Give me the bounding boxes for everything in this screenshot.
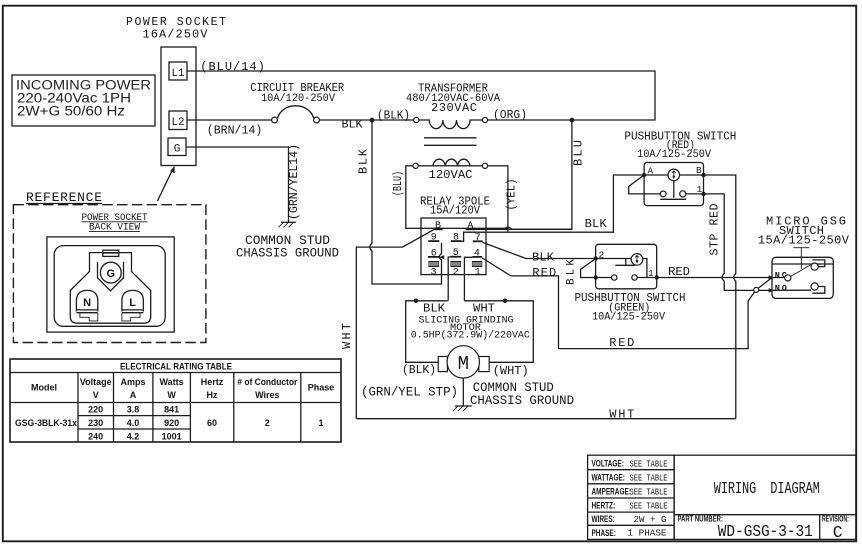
svg-text:10A/125-250V: 10A/125-250V bbox=[592, 312, 665, 324]
node BLU junction bbox=[570, 118, 575, 123]
svg-text:A: A bbox=[647, 166, 653, 177]
svg-text:V: V bbox=[93, 390, 99, 400]
svg-text:Hz: Hz bbox=[207, 390, 218, 400]
svg-text:AMPERAGE:: AMPERAGE: bbox=[592, 486, 631, 497]
svg-text:4.2: 4.2 bbox=[127, 431, 140, 441]
svg-text:SEE TABLE: SEE TABLE bbox=[630, 472, 668, 483]
svg-text:N: N bbox=[83, 297, 91, 309]
svg-text:L2: L2 bbox=[172, 117, 185, 129]
svg-text:RED: RED bbox=[532, 266, 556, 280]
svg-text:220: 220 bbox=[88, 405, 103, 415]
label PUSHBUTTON SWITCH (RED) bbox=[624, 130, 736, 161]
incoming power note box bbox=[12, 75, 155, 126]
svg-text:W: W bbox=[167, 390, 176, 400]
svg-text:WHT: WHT bbox=[473, 301, 495, 315]
svg-text:Amps: Amps bbox=[120, 377, 145, 387]
svg-text:PHASE:: PHASE: bbox=[592, 528, 616, 539]
relay contact block bbox=[421, 218, 486, 275]
svg-text:BLU: BLU bbox=[572, 140, 586, 166]
relay pad 9 bbox=[428, 240, 439, 242]
svg-text:0.5HP(372.9W)/220VAC: 0.5HP(372.9W)/220VAC bbox=[411, 329, 530, 341]
svg-text:CHASSIS GROUND: CHASSIS GROUND bbox=[236, 246, 339, 261]
wire L1 to top right bbox=[187, 71, 655, 120]
svg-text:9: 9 bbox=[431, 233, 437, 244]
svg-text:(WHT): (WHT) bbox=[493, 364, 529, 378]
svg-text:(YEL): (YEL) bbox=[505, 179, 519, 211]
svg-text:920: 920 bbox=[164, 418, 179, 428]
svg-text:3: 3 bbox=[430, 267, 436, 278]
svg-text:5: 5 bbox=[453, 248, 459, 259]
svg-text:Voltage: Voltage bbox=[80, 377, 112, 387]
svg-text:REFERENCE: REFERENCE bbox=[26, 190, 102, 205]
relay contact 4-1 bbox=[472, 261, 482, 266]
svg-text:WATTAGE:: WATTAGE: bbox=[592, 472, 625, 483]
svg-text:2: 2 bbox=[453, 268, 459, 279]
wire PB-red B down (STP RED 1) bbox=[704, 175, 736, 419]
pushbutton switch red S1 bbox=[629, 163, 706, 206]
svg-text:VOLTAGE:: VOLTAGE: bbox=[592, 458, 624, 469]
svg-text:7: 7 bbox=[475, 233, 481, 244]
svg-text:230: 230 bbox=[88, 418, 103, 428]
svg-text:WD-GSG-3-31: WD-GSG-3-31 bbox=[718, 522, 813, 541]
svg-text:WIRES:: WIRES: bbox=[592, 514, 615, 525]
svg-text:60: 60 bbox=[207, 418, 217, 428]
svg-text:STP RED: STP RED bbox=[709, 203, 722, 255]
svg-text:L1: L1 bbox=[172, 68, 185, 80]
svg-text:M: M bbox=[458, 353, 469, 375]
svg-text:BLK: BLK bbox=[342, 118, 364, 132]
power socket J1 bbox=[161, 47, 196, 166]
svg-text:G: G bbox=[107, 268, 116, 280]
svg-text:SEE TABLE: SEE TABLE bbox=[630, 458, 668, 469]
leader arrow to socket bbox=[157, 166, 174, 201]
svg-text:PART NUMBER:: PART NUMBER: bbox=[678, 513, 723, 523]
label REFERENCE bbox=[26, 190, 102, 205]
svg-text:Model: Model bbox=[31, 383, 57, 393]
svg-text:1: 1 bbox=[648, 268, 654, 279]
wire PB-red 1 down to micro NO bbox=[704, 194, 770, 291]
svg-text:L: L bbox=[129, 297, 136, 309]
svg-text:Phase: Phase bbox=[308, 383, 335, 393]
svg-text:8: 8 bbox=[453, 233, 459, 244]
relay pad 5 bbox=[450, 256, 461, 258]
svg-text:240: 240 bbox=[88, 431, 103, 441]
wire relay A line with hop bbox=[475, 227, 572, 229]
svg-text:NO: NO bbox=[775, 283, 787, 293]
label COMMON STUD CHASSIS GROUND (left) bbox=[236, 233, 339, 261]
svg-text:16A/250V: 16A/250V bbox=[143, 28, 209, 42]
svg-text:230VAC: 230VAC bbox=[431, 101, 477, 115]
svg-text:120VAC: 120VAC bbox=[429, 168, 473, 182]
label PUSHBUTTON SWITCH (GREEN) bbox=[575, 291, 686, 324]
transformer T1 bbox=[406, 82, 500, 146]
svg-text:1 PHASE: 1 PHASE bbox=[628, 528, 667, 539]
svg-text:2W + G: 2W + G bbox=[634, 514, 667, 525]
label POWER SOCKET title bbox=[126, 16, 226, 42]
svg-text:HERTZ:: HERTZ: bbox=[592, 500, 616, 511]
svg-text:ELECTRICAL RATING TABLE: ELECTRICAL RATING TABLE bbox=[120, 362, 232, 372]
relay coil box U1 bbox=[406, 159, 508, 228]
svg-text:3.8: 3.8 bbox=[127, 405, 140, 415]
label COMMON STUD CHASSIS GROUND (motor) bbox=[470, 380, 574, 408]
svg-text:10A/120-250V: 10A/120-250V bbox=[261, 93, 335, 105]
svg-text:1001: 1001 bbox=[162, 431, 182, 441]
title block bbox=[588, 455, 856, 542]
relay pad A bbox=[466, 228, 475, 230]
svg-text:841: 841 bbox=[164, 405, 179, 415]
wire motor to ground bbox=[462, 378, 464, 406]
svg-text:6: 6 bbox=[431, 248, 437, 259]
wire relay B to WHT neutral bbox=[356, 230, 433, 419]
ground chassis (motor) bbox=[453, 406, 472, 411]
svg-text:(GRN/YEL STP): (GRN/YEL STP) bbox=[361, 384, 458, 399]
svg-text:WIRING DIAGRAM: WIRING DIAGRAM bbox=[714, 479, 820, 498]
svg-text:A: A bbox=[467, 221, 473, 232]
wire G to chassis ground bbox=[186, 147, 289, 222]
svg-text:15A/125-250V: 15A/125-250V bbox=[758, 234, 850, 248]
electrical rating table bbox=[10, 359, 341, 442]
micro switch common pivot bbox=[754, 287, 759, 292]
svg-text:(BLU): (BLU) bbox=[391, 171, 405, 196]
label POWER SOCKET BACK VIEW bbox=[82, 213, 148, 234]
wire breaker to transformer bbox=[320, 119, 414, 121]
svg-text:2: 2 bbox=[265, 418, 270, 428]
wire BLU vertical to relay coil A bbox=[475, 120, 572, 229]
svg-text:Watts: Watts bbox=[160, 377, 184, 387]
svg-text:Hertz: Hertz bbox=[201, 377, 224, 387]
svg-text:BLK: BLK bbox=[357, 148, 371, 174]
svg-text:RED: RED bbox=[609, 336, 634, 350]
wire relay pad 8 to pushbutton A bbox=[461, 175, 644, 241]
svg-text:A: A bbox=[130, 390, 137, 400]
svg-text:WHT: WHT bbox=[340, 323, 354, 349]
label MICRO GSG SWITCH bbox=[758, 215, 850, 248]
svg-text:G: G bbox=[174, 143, 181, 155]
ground chassis (socket) bbox=[279, 222, 297, 227]
svg-text:GSG-3BLK-31x: GSG-3BLK-31x bbox=[15, 418, 77, 428]
wire WHT bottom run bbox=[356, 418, 736, 420]
relay contact 6-3 bbox=[429, 261, 439, 266]
svg-text:C: C bbox=[833, 523, 843, 542]
svg-text:4: 4 bbox=[474, 248, 480, 259]
svg-text:Wires: Wires bbox=[255, 390, 279, 400]
wire relay 4col to motor WHT bbox=[464, 257, 472, 300]
svg-text:15A/120V: 15A/120V bbox=[430, 204, 481, 218]
svg-text:(BLU/14): (BLU/14) bbox=[200, 60, 264, 74]
relay pad B bbox=[433, 228, 442, 230]
wire lever NC to pivot bbox=[758, 278, 771, 288]
relay pad 4 bbox=[472, 256, 482, 258]
svg-text:# of Conductor: # of Conductor bbox=[237, 377, 297, 387]
wire coil box right edge stub bbox=[507, 228, 509, 232]
wire relay 7 to green PB (BLK) bbox=[483, 242, 596, 258]
svg-text:(BRN/14): (BRN/14) bbox=[207, 124, 262, 138]
svg-text:(GRN/YEL14): (GRN/YEL14) bbox=[287, 144, 301, 220]
svg-text:10A/125-250V: 10A/125-250V bbox=[637, 149, 711, 161]
svg-text:BLK: BLK bbox=[423, 301, 446, 315]
wire relay 5 to motor BLK bbox=[448, 257, 450, 301]
relay pad 7 bbox=[473, 240, 483, 242]
svg-text:1: 1 bbox=[318, 418, 323, 428]
wire relay 4 RED run to micro common bbox=[482, 258, 754, 349]
circuit breaker CB1 bbox=[250, 81, 344, 123]
motor M1 box bbox=[406, 299, 534, 379]
svg-text:4.0: 4.0 bbox=[127, 418, 140, 428]
svg-text:BLK: BLK bbox=[585, 217, 608, 231]
svg-text:WHT: WHT bbox=[609, 408, 634, 422]
svg-text:2W+G 50/60 Hz: 2W+G 50/60 Hz bbox=[17, 104, 125, 119]
node BLK junction bbox=[370, 118, 375, 123]
wire L2 to breaker bbox=[187, 119, 272, 121]
svg-text:(BLK): (BLK) bbox=[377, 109, 410, 123]
svg-text:SEE TABLE: SEE TABLE bbox=[630, 486, 668, 497]
svg-text:(ORG): (ORG) bbox=[493, 108, 527, 122]
svg-text:BLK: BLK bbox=[532, 251, 555, 265]
micro GSG switch S3 bbox=[769, 248, 834, 299]
svg-text:BLK: BLK bbox=[566, 259, 578, 285]
svg-text:CHASSIS GROUND: CHASSIS GROUND bbox=[470, 393, 574, 408]
wire BLK vertical from breaker junction bbox=[370, 120, 442, 284]
relay pad 6 bbox=[428, 256, 439, 258]
svg-text:(BLK): (BLK) bbox=[402, 363, 436, 377]
reference dashed box bbox=[13, 205, 206, 343]
svg-text:SEE TABLE: SEE TABLE bbox=[630, 501, 668, 512]
svg-text:1: 1 bbox=[475, 268, 481, 279]
pushbutton switch green S2 bbox=[581, 244, 659, 288]
wire arrow into relay pad 6 bbox=[439, 255, 444, 259]
svg-text:B: B bbox=[435, 221, 441, 232]
relay contact 5-2 bbox=[451, 261, 461, 266]
power socket back view drawing bbox=[47, 237, 174, 332]
relay pad 8 bbox=[451, 240, 462, 242]
svg-text:B: B bbox=[696, 165, 702, 176]
wire green PB 1 to micro NC bbox=[657, 277, 770, 279]
